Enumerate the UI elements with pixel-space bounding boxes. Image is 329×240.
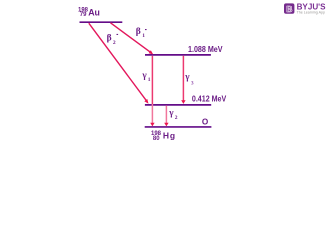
svg-text:B: B (286, 4, 292, 14)
svg-text:2: 2 (175, 115, 178, 121)
svg-text:β: β (107, 34, 112, 44)
svg-text:79: 79 (80, 12, 87, 18)
svg-text:3: 3 (191, 80, 194, 86)
svg-text:β: β (136, 27, 141, 37)
svg-text:Hg: Hg (163, 130, 176, 140)
svg-text:2: 2 (113, 40, 116, 46)
svg-text:0.412 MeV: 0.412 MeV (192, 95, 227, 104)
svg-text:γ: γ (141, 70, 147, 80)
svg-text:The Learning App: The Learning App (297, 11, 325, 15)
svg-text:γ: γ (184, 72, 190, 82)
svg-text:1: 1 (148, 77, 151, 83)
svg-text:Au: Au (88, 7, 100, 17)
svg-text:1.088 MeV: 1.088 MeV (188, 45, 223, 54)
svg-text:γ: γ (168, 108, 174, 118)
svg-text:O: O (202, 118, 209, 127)
svg-text:80: 80 (153, 136, 160, 142)
svg-text:1: 1 (142, 33, 145, 39)
